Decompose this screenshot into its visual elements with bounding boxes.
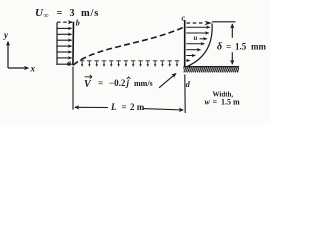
svg-text:δ: δ bbox=[217, 42, 222, 53]
station line ab bbox=[72, 22, 75, 66]
svg-text:3: 3 bbox=[70, 8, 75, 19]
svg-text:1.5 m: 1.5 m bbox=[221, 98, 240, 107]
svg-text:b: b bbox=[76, 19, 80, 28]
svg-text:u: u bbox=[194, 34, 198, 42]
svg-text:c: c bbox=[182, 14, 186, 23]
x axis bbox=[8, 67, 29, 69]
leader arrow to plate bbox=[159, 73, 176, 87]
suction velocity label V = -0.2j mm/s bbox=[84, 75, 153, 90]
svg-text:d: d bbox=[186, 80, 191, 89]
suction arrows through porous plate bbox=[80, 61, 179, 67]
y axis bbox=[7, 42, 9, 69]
delta dimension arrows bbox=[231, 24, 233, 64]
svg-text:=: = bbox=[213, 98, 218, 107]
inlet top dashed arrow bbox=[57, 21, 72, 23]
outlet velocity arrows bbox=[186, 27, 210, 60]
porous plate hatched surface bbox=[184, 67, 240, 73]
svg-text:2 m: 2 m bbox=[130, 102, 145, 112]
station line cd bbox=[184, 20, 186, 67]
inlet profile left line bbox=[56, 23, 58, 66]
L dimension extension line below d bbox=[184, 75, 186, 114]
svg-text:V: V bbox=[84, 79, 92, 90]
width label bbox=[205, 91, 241, 107]
outlet top dashed arrow bbox=[187, 22, 205, 24]
inlet velocity arrows bbox=[57, 28, 72, 64]
L label bbox=[110, 102, 145, 112]
outlet boundary layer profile envelope bbox=[186, 24, 212, 68]
svg-text:L: L bbox=[110, 102, 117, 112]
svg-text:=: = bbox=[226, 42, 231, 52]
delta dimension extension line bbox=[212, 21, 236, 23]
svg-text:−0.2: −0.2 bbox=[109, 78, 126, 88]
freestream label U infinity = 3 m/s bbox=[35, 7, 99, 20]
svg-text:=: = bbox=[98, 78, 103, 88]
svg-text:w: w bbox=[205, 98, 211, 107]
delta label bbox=[217, 42, 266, 53]
boundary-layer edge dashed curve a to c bbox=[73, 27, 184, 65]
svg-text:∞: ∞ bbox=[44, 12, 49, 20]
svg-text:mm/s: mm/s bbox=[134, 79, 153, 88]
L dimension line with arrows bbox=[75, 107, 184, 110]
svg-text:=: = bbox=[57, 8, 63, 19]
svg-text:y: y bbox=[3, 30, 9, 40]
svg-text:1.5: 1.5 bbox=[235, 42, 247, 52]
svg-text:mm: mm bbox=[251, 42, 266, 52]
svg-text:=: = bbox=[122, 102, 127, 112]
L dimension extension line below a bbox=[72, 67, 74, 110]
svg-text:x: x bbox=[30, 64, 36, 74]
svg-text:m/s: m/s bbox=[81, 8, 99, 19]
svg-text:a: a bbox=[67, 59, 71, 68]
